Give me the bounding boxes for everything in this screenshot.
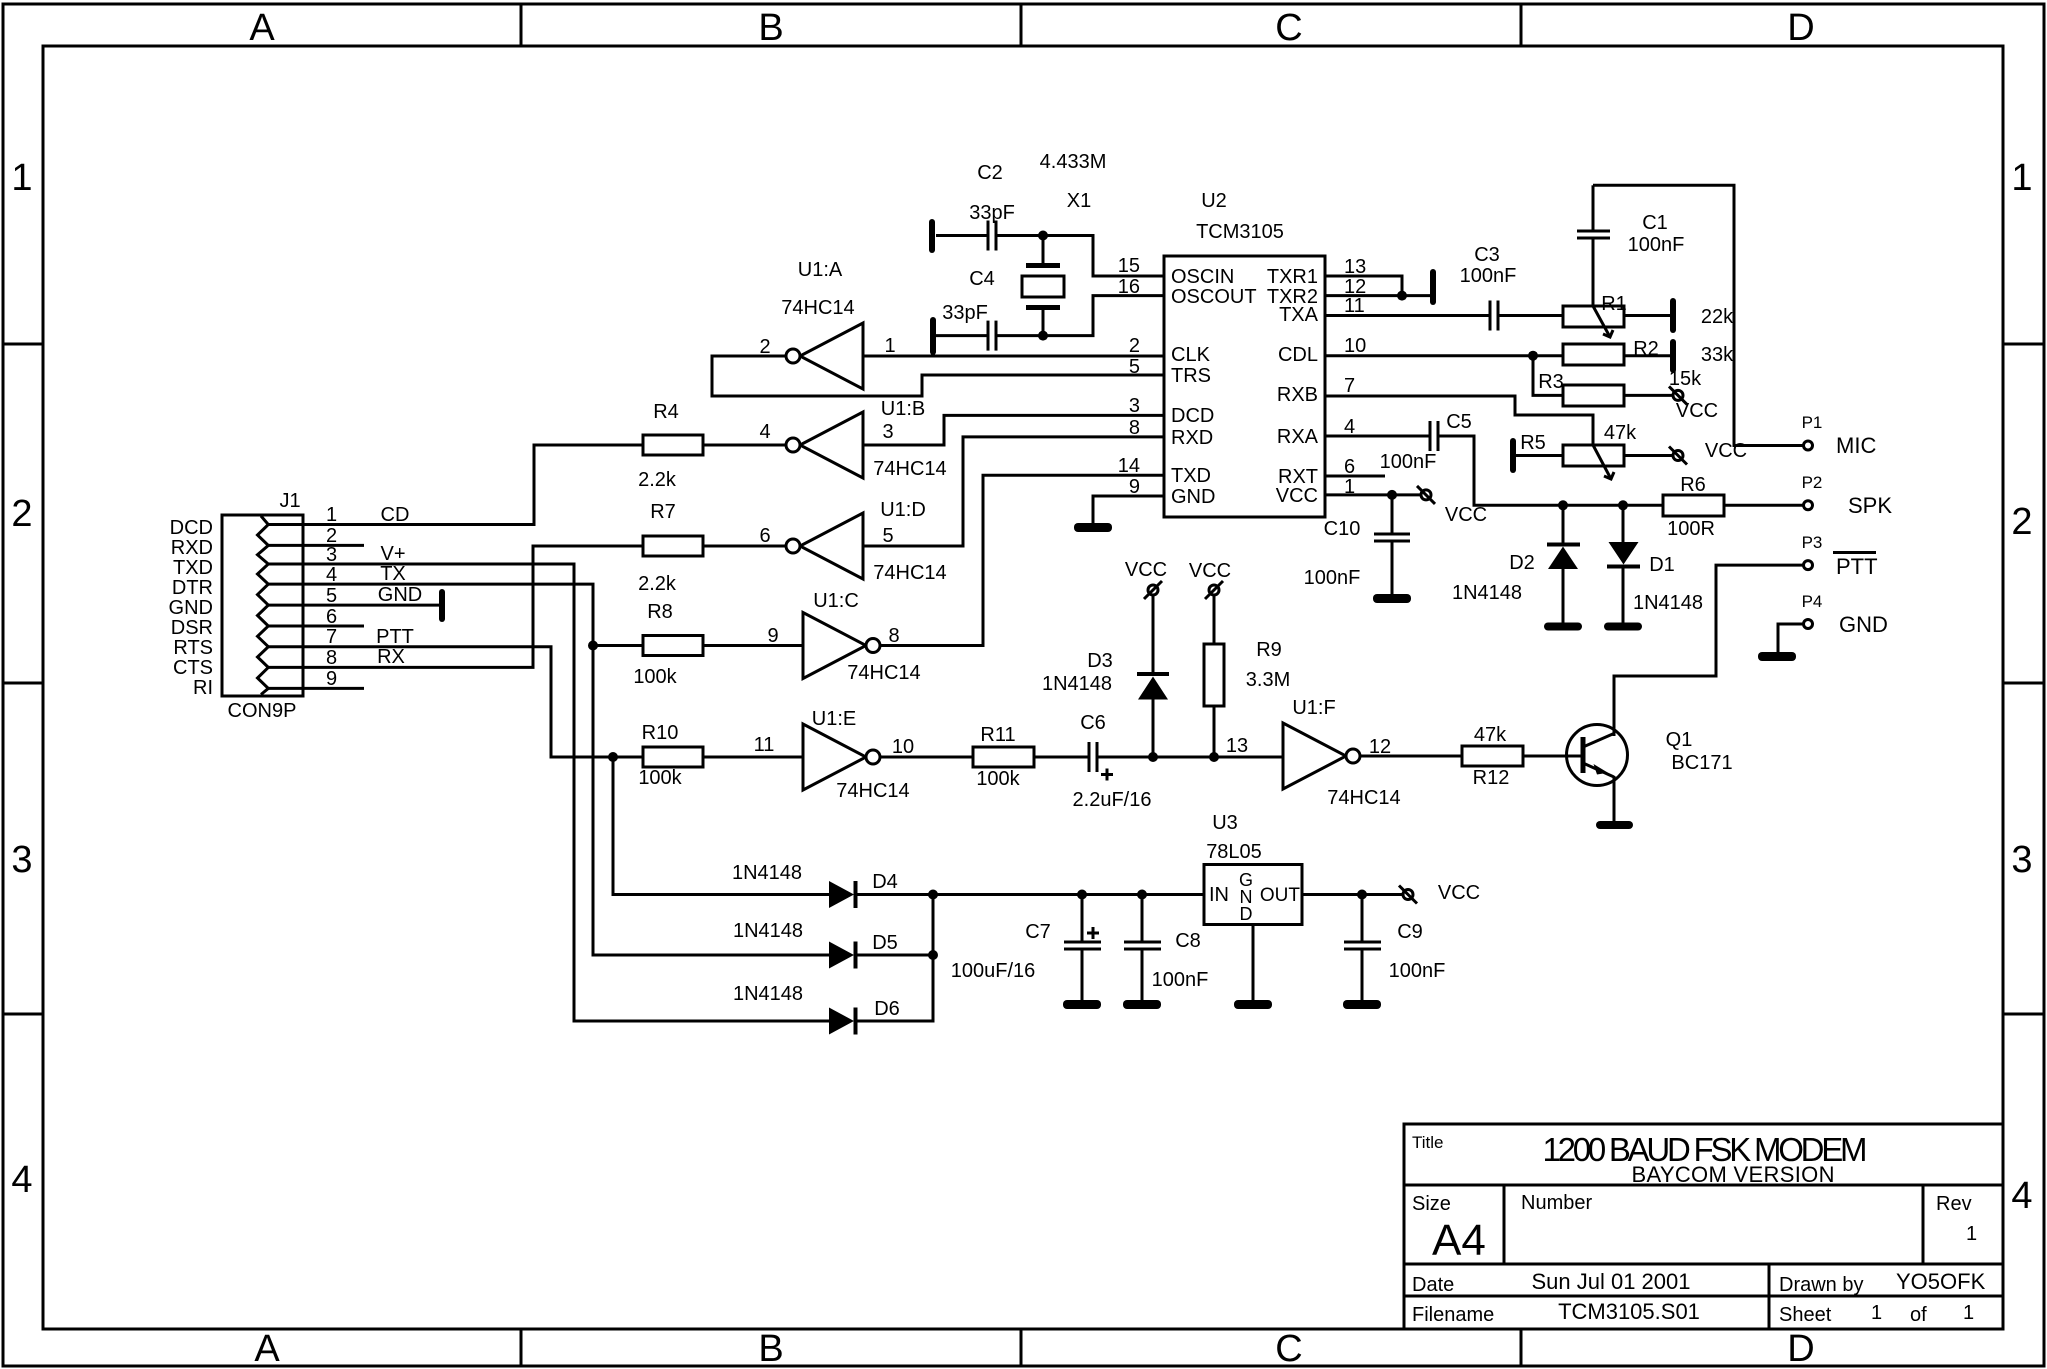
wire OSCOUT from crystal [996,296,1164,336]
svg-text:C: C [1275,7,1302,49]
power VCC at U3 OUT [1399,886,1417,904]
svg-text:13: 13 [1226,735,1248,757]
svg-text:CON9P: CON9P [228,700,297,722]
capacitor C7 polarized [1064,895,1101,1001]
svg-text:10: 10 [892,736,914,758]
wire J1 pin9 stub [268,687,364,690]
svg-text:Number: Number [1521,1192,1592,1214]
svg-text:1: 1 [11,157,32,199]
pin P3 circle [1804,561,1813,570]
svg-text:1: 1 [1963,1302,1974,1324]
svg-text:74HC14: 74HC14 [873,458,946,480]
ground at Q1 emitter [1596,821,1633,829]
svg-text:VCC: VCC [1445,504,1487,526]
junction D3 node [1148,752,1158,762]
capacitor C2 plates [988,221,996,251]
svg-text:74HC14: 74HC14 [847,662,920,684]
ground at P4 [1758,652,1796,661]
wire R11 to C6 [1034,756,1089,759]
op-amp U1:E inverter [803,724,880,790]
voltage regulator U3 78L05 [1204,865,1302,925]
wire RXT stub [1325,475,1385,478]
junction crystal top node [1038,231,1048,241]
svg-text:RXD: RXD [1171,427,1213,449]
svg-text:D1: D1 [1649,554,1675,576]
resistor R4 [643,435,703,455]
wire U1:F output to R12 [1360,755,1462,758]
capacitor C1 [1577,185,1610,306]
R2 terminal bar [1670,339,1676,373]
frame tick right 3|4 [2003,1013,2044,1016]
svg-text:OUT: OUT [1260,885,1301,906]
junction diode rail at D4 [928,890,938,900]
svg-text:33pF: 33pF [969,202,1015,224]
svg-text:SPK: SPK [1848,493,1892,518]
svg-text:1: 1 [884,335,895,357]
diode D3 [1137,595,1169,757]
diode D6 [829,1008,856,1035]
crystal X1 [1022,236,1064,336]
diode D1 [1607,505,1640,623]
svg-text:TX: TX [380,563,406,585]
svg-text:R8: R8 [647,601,673,623]
resistor R2 [1563,344,1624,365]
svg-text:CD: CD [381,504,410,526]
wire RXB to R5 wiper [1325,396,1593,445]
svg-text:C10: C10 [1324,518,1361,540]
wire J1 pin5 to ground stub [268,604,442,607]
svg-text:1: 1 [2011,157,2032,199]
svg-text:9: 9 [326,668,337,690]
svg-text:R3: R3 [1538,371,1564,393]
svg-text:C8: C8 [1175,930,1201,952]
svg-text:74HC14: 74HC14 [1327,787,1400,809]
junction VCC/C10 [1387,490,1397,500]
svg-text:VCC: VCC [1676,400,1718,422]
svg-text:4.433M: 4.433M [1040,151,1107,173]
op-amp U1:D inverter [786,513,863,579]
svg-text:15k: 15k [1669,368,1702,390]
wire R3 right to VCC [1624,394,1673,397]
wire U1:C output to U2 TXD [880,475,1164,645]
svg-text:Date: Date [1412,1274,1454,1296]
wire D6 cathode to rail [857,895,933,1022]
svg-text:TRS: TRS [1171,365,1211,387]
wire C6 to U1:F input [1097,756,1283,759]
wire U1:A output to U2 TRS [712,356,1164,396]
svg-text:100nF: 100nF [1389,960,1446,982]
wire P4 to ground [1778,624,1803,652]
pin P4 circle [1804,620,1813,629]
wire R8 to U1:C input [703,644,803,647]
svg-text:100nF: 100nF [1628,234,1685,256]
wire U3 GND pin to ground [1252,925,1255,1001]
wire TX: J1 pin4 down to D5 anode [268,584,829,955]
ground at C10 [1373,594,1411,603]
diode D2 [1547,505,1580,623]
svg-text:100R: 100R [1667,518,1715,540]
wire J1 pin6 stub [268,625,364,628]
svg-text:C: C [1275,1328,1302,1369]
port label PTT with overline [1833,551,1878,579]
svg-text:GND: GND [1839,612,1888,637]
op-amp U1:A inverter [786,323,863,389]
svg-text:Sun Jul 01 2001: Sun Jul 01 2001 [1531,1269,1690,1294]
resistor R6 [1663,495,1724,516]
svg-text:D6: D6 [874,998,900,1020]
svg-text:Filename: Filename [1412,1304,1494,1326]
svg-text:100nF: 100nF [1304,567,1361,589]
svg-text:U1:B: U1:B [881,398,925,420]
wire TX branch to R8 [593,644,643,647]
junction SPK rail at D1 [1618,500,1628,510]
frame tick top C|D [1520,4,1523,46]
svg-text:TCM3105: TCM3105 [1196,221,1284,243]
wire VCC rail from C1 to MIC [1593,185,1803,445]
op-amp U1:C inverter [803,613,880,679]
frame tick bottom B|C [1020,1329,1023,1366]
svg-text:R7: R7 [650,501,676,523]
svg-text:DCD: DCD [170,517,213,539]
svg-text:11: 11 [754,734,775,756]
wire PTT down to D4 anode [613,757,829,895]
pin P1 circle [1804,441,1813,450]
power VCC at U2 pin1 [1417,486,1435,504]
wire R2 right to terminal [1624,354,1670,357]
wire V+: J1 pin3 to D6 anode [268,564,829,1021]
svg-text:RTS: RTS [173,637,213,659]
wire R5 left to terminal [1516,454,1563,457]
frame tick bottom C|D [1520,1329,1523,1366]
svg-text:100k: 100k [633,666,677,688]
resistor R3 [1563,385,1624,406]
svg-text:RXB: RXB [1277,384,1318,406]
frame tick left 3|4 [3,1013,43,1016]
ground at C8 [1123,1000,1161,1009]
svg-text:Drawn by: Drawn by [1779,1274,1863,1296]
capacitor C10 [1374,495,1410,594]
svg-text:7: 7 [326,626,337,648]
wire RXA through C5 to SPK rail [1325,435,1430,438]
svg-text:100uF/16: 100uF/16 [951,960,1036,982]
C2 terminal bar [929,219,935,253]
junction diode rail at D5 [928,950,938,960]
svg-text:8: 8 [888,625,899,647]
svg-text:47k: 47k [1604,422,1637,444]
svg-text:C4: C4 [969,268,995,290]
svg-text:R10: R10 [642,722,679,744]
svg-text:Q1: Q1 [1666,729,1693,751]
svg-text:TXA: TXA [1279,304,1319,326]
svg-text:6: 6 [759,525,770,547]
svg-text:3: 3 [2011,839,2032,881]
svg-text:8: 8 [326,647,337,669]
svg-text:U2: U2 [1201,190,1227,212]
wire C5 to R6/SPK rail [1438,436,1663,505]
svg-text:TXD: TXD [173,557,213,579]
wire U2 GND pin to ground [1093,496,1164,523]
power VCC at R3 [1669,386,1687,404]
junction PTT/R10 [608,752,618,762]
svg-text:2: 2 [11,493,32,535]
svg-text:Sheet: Sheet [1779,1304,1832,1326]
svg-text:C1: C1 [1642,212,1668,234]
svg-text:1N4148: 1N4148 [1452,582,1522,604]
svg-text:PTT: PTT [376,626,414,648]
svg-text:Size: Size [1412,1193,1451,1215]
svg-text:B: B [758,7,783,49]
svg-text:VCC: VCC [1276,485,1318,507]
svg-text:OSCOUT: OSCOUT [1171,286,1257,308]
capacitor C8 [1124,895,1161,1001]
svg-text:1: 1 [1966,1223,1977,1245]
junction SPK rail at D2 [1558,500,1568,510]
resistor R12 [1462,746,1523,766]
wire R6 to SPK pin [1724,504,1803,507]
svg-text:IN: IN [1209,884,1229,906]
svg-text:MIC: MIC [1836,433,1876,458]
svg-text:2.2uF/16: 2.2uF/16 [1073,789,1152,811]
svg-text:B: B [758,1328,783,1369]
wire TXA to C3 [1325,314,1490,317]
svg-text:CDL: CDL [1278,344,1318,366]
svg-text:CTS: CTS [173,657,213,679]
svg-text:74HC14: 74HC14 [836,780,909,802]
svg-text:7: 7 [1344,375,1355,397]
ground at D1 [1604,623,1642,631]
svg-text:VCC: VCC [1438,882,1480,904]
svg-text:74HC14: 74HC14 [781,297,854,319]
svg-text:D4: D4 [872,871,898,893]
wire U1:E output to R11 [880,756,973,759]
svg-text:U3: U3 [1212,812,1238,834]
svg-text:100nF: 100nF [1152,969,1209,991]
wire OSCIN from crystal [996,236,1164,277]
svg-text:D: D [1240,904,1253,924]
svg-text:100k: 100k [638,767,682,789]
svg-text:J1: J1 [279,490,300,512]
power VCC at R5 [1669,447,1687,465]
svg-text:C2: C2 [977,162,1003,184]
svg-text:C7: C7 [1025,921,1051,943]
svg-text:X1: X1 [1067,190,1091,212]
svg-text:100nF: 100nF [1380,451,1437,473]
wire D5 cathode to rail [857,954,933,957]
capacitor C6 polarized [1089,742,1113,781]
junction R9 node [1209,752,1219,762]
svg-text:CLK: CLK [1171,344,1211,366]
junction crystal bottom node [1038,331,1048,341]
svg-text:33k: 33k [1701,344,1734,366]
connector J1 body [222,515,303,696]
capacitor C5 plates [1430,421,1438,451]
R1 terminal bar [1670,298,1676,333]
svg-text:47k: 47k [1474,724,1507,746]
svg-text:RXA: RXA [1277,426,1319,448]
C4 terminal bar [930,317,936,355]
svg-text:U1:E: U1:E [812,708,856,730]
svg-text:P3: P3 [1802,533,1823,552]
svg-text:PTT: PTT [1836,554,1878,579]
svg-text:BAYCOM VERSION: BAYCOM VERSION [1632,1162,1835,1187]
wire R10 to U1:E input [703,756,803,759]
svg-text:2.2k: 2.2k [638,469,677,491]
svg-text:U1:C: U1:C [813,590,859,612]
wire R1 right to terminal [1624,314,1670,317]
svg-text:3: 3 [1129,395,1140,417]
svg-text:U1:F: U1:F [1292,697,1335,719]
resistor R1 trimmer [1563,306,1624,337]
wire U2 VCC pin to supply [1325,493,1421,496]
svg-text:2.2k: 2.2k [638,573,677,595]
ground at D2 [1544,623,1582,631]
svg-text:TXD: TXD [1171,465,1211,487]
svg-text:DSR: DSR [171,617,213,639]
wire TXR2 to terminal [1325,294,1430,297]
junction CDL/R3 [1528,351,1538,361]
svg-text:3.3M: 3.3M [1246,669,1290,691]
frame tick left 1|2 [3,343,43,346]
ground at U2 pin9 [1074,523,1112,532]
svg-text:R12: R12 [1473,767,1510,789]
svg-text:P2: P2 [1802,473,1823,492]
resistor R7 [643,536,703,556]
svg-text:V+: V+ [380,543,405,565]
svg-text:1: 1 [1871,1302,1882,1324]
svg-text:1N4148: 1N4148 [733,983,803,1005]
U3 pin name GND vertical [1239,870,1253,924]
op-amp U1:F inverter [1283,723,1360,789]
wire PTT branch to R10 [613,756,643,759]
wire U1:B input to U2 DCD [863,415,1164,445]
op-amp U1:B inverter [786,412,863,478]
svg-text:14: 14 [1118,455,1140,477]
svg-text:100k: 100k [976,768,1020,790]
wire J1 pin2 stub [268,544,364,547]
svg-text:P4: P4 [1802,592,1823,611]
svg-text:R4: R4 [653,401,679,423]
power VCC at D3 [1144,581,1162,599]
svg-text:11: 11 [1344,295,1365,317]
svg-text:A: A [249,7,275,49]
svg-text:C6: C6 [1080,712,1106,734]
svg-text:1N4148: 1N4148 [732,862,802,884]
svg-text:D3: D3 [1087,650,1113,672]
svg-text:P1: P1 [1802,413,1823,432]
wire R7 to U1:D output bubble [703,545,786,548]
title block outline [1404,1124,2003,1329]
junction TXR nodes [1397,291,1407,301]
transistor Q1 [1567,725,1628,823]
svg-text:C9: C9 [1397,921,1423,943]
svg-text:1N4148: 1N4148 [733,920,803,942]
svg-text:RX: RX [377,646,405,668]
ground at C7 [1063,1000,1101,1009]
wire diode cathode rail to U3 IN [857,893,1204,896]
wire R3 branch from CDL [1533,356,1563,396]
svg-text:OSCIN: OSCIN [1171,266,1234,288]
svg-text:4: 4 [759,421,770,443]
TXR terminal bar [1430,269,1436,305]
diode D4 [829,881,856,908]
resistor R10 [643,747,703,767]
svg-text:U1:A: U1:A [798,259,843,281]
junction C9 node [1357,890,1367,900]
power VCC at R9 [1205,581,1223,599]
wire R5 right to VCC [1624,454,1673,457]
svg-text:33pF: 33pF [942,302,988,324]
svg-text:4: 4 [2011,1175,2032,1217]
svg-text:C3: C3 [1474,244,1500,266]
svg-text:U1:D: U1:D [880,499,926,521]
junction TX/R8 [588,641,598,651]
svg-text:1: 1 [326,504,337,526]
resistor R8 [643,636,703,656]
svg-text:78L05: 78L05 [1206,841,1262,863]
svg-text:GND: GND [378,584,422,606]
wire U1:A input to U2 CLK [863,355,1164,358]
svg-text:10: 10 [1344,335,1366,357]
svg-text:1N4148: 1N4148 [1042,673,1112,695]
svg-text:R1: R1 [1601,293,1627,315]
svg-text:R11: R11 [980,724,1015,746]
svg-text:A: A [254,1328,280,1369]
wire R12 to Q1 base [1523,755,1581,758]
capacitor C9 [1344,895,1381,1001]
resistor R9 vertical [1204,595,1224,757]
capacitor C4 plates [988,321,996,351]
ground at U3 [1234,1000,1272,1009]
svg-text:D: D [1787,1328,1814,1369]
svg-text:Title: Title [1412,1133,1444,1152]
junction C7 node [1077,890,1087,900]
ground at C9 [1343,1000,1381,1009]
svg-text:YO5OFK: YO5OFK [1896,1269,1986,1294]
frame tick top A|B [520,4,523,46]
capacitor C3 plates [1490,301,1498,331]
svg-text:3: 3 [11,839,32,881]
svg-text:VCC: VCC [1189,560,1231,582]
svg-text:8: 8 [1129,417,1140,439]
svg-text:R9: R9 [1256,639,1282,661]
svg-text:VCC: VCC [1705,440,1747,462]
svg-text:9: 9 [767,625,778,647]
wire PTT: J1 pin7 to R10 row [268,647,613,757]
svg-text:3: 3 [882,421,893,443]
wire C4 left terminal [936,334,988,337]
svg-text:22k: 22k [1701,306,1734,328]
resistor R5 trimmer [1563,445,1624,479]
wire TXR1 [1325,276,1402,296]
svg-text:GND: GND [169,597,213,619]
svg-text:Rev: Rev [1936,1193,1972,1215]
R5 terminal bar [1510,438,1516,473]
svg-text:GND: GND [1171,486,1215,508]
wire CD: J1 pin1 to R4 [268,445,643,525]
frame tick right 2|3 [2003,682,2044,685]
frame tick left 2|3 [3,682,43,685]
wire R4 to U1:B output bubble [703,444,786,447]
svg-text:74HC14: 74HC14 [873,562,946,584]
resistor R11 [973,747,1034,767]
svg-text:5: 5 [882,525,893,547]
svg-text:TXR1: TXR1 [1267,266,1318,288]
svg-text:1N4148: 1N4148 [1633,592,1703,614]
frame tick right 1|2 [2003,343,2044,346]
svg-text:2: 2 [1129,335,1140,357]
svg-text:D2: D2 [1509,552,1535,574]
svg-text:DCD: DCD [1171,405,1214,427]
